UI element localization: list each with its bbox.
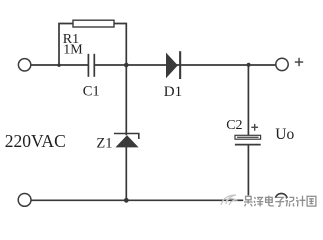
- svg-text:C2: C2: [226, 118, 242, 133]
- svg-text:Uo: Uo: [275, 126, 294, 143]
- svg-text:1M: 1M: [63, 42, 83, 57]
- svg-text:Z1: Z1: [96, 135, 112, 151]
- svg-text:C1: C1: [83, 84, 100, 100]
- svg-text:D1: D1: [164, 84, 182, 100]
- svg-text:220VAC: 220VAC: [5, 131, 66, 151]
